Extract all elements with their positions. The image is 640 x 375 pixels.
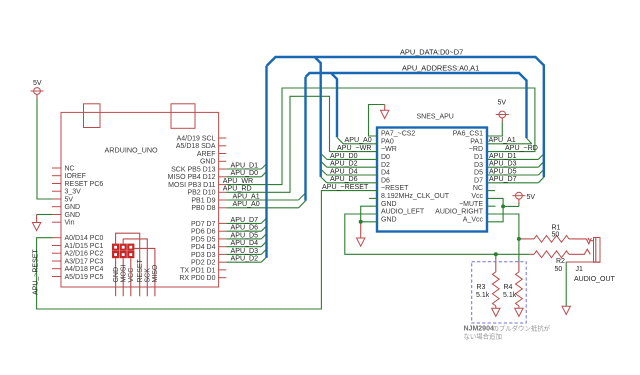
ARDUINO_UNO left pins (NC IOREF RESET 3_3V 5V GND GND Vin A0-A5) xyxy=(52,165,104,281)
svg-text:MOSI: MOSI xyxy=(121,265,128,283)
svg-text:~RESET: ~RESET xyxy=(381,185,409,192)
svg-text:Vcc: Vcc xyxy=(471,193,483,200)
svg-text:D4: D4 xyxy=(381,170,390,177)
wire APU_D3 from Arduino xyxy=(226,253,261,255)
bus entry APU_D4 Arduino side xyxy=(261,241,267,247)
ground at jack J1 xyxy=(562,262,570,315)
svg-text:RESET PC6: RESET PC6 xyxy=(65,181,104,188)
net label APU_RD at Arduino xyxy=(223,185,252,193)
resistor R2 50 xyxy=(529,251,581,258)
net label APU_D2 at Arduino xyxy=(231,255,259,263)
svg-text:A5/D18 SDA: A5/D18 SDA xyxy=(176,143,216,150)
net label APU_D0 at Arduino xyxy=(231,169,259,177)
net label APU_~RD at SNES right xyxy=(505,144,538,152)
SNES_APU left pin names xyxy=(381,131,450,224)
bus entry APU_A1 SNES right xyxy=(527,138,532,144)
svg-text:APU_A1: APU_A1 xyxy=(233,192,260,200)
svg-text:A0/D14 PC0: A0/D14 PC0 xyxy=(65,235,104,242)
wire APU_D0 to SNES xyxy=(327,158,377,160)
svg-text:~RD: ~RD xyxy=(469,146,483,153)
bus entry APU_A1 left xyxy=(299,193,306,200)
junction SNES GND xyxy=(359,220,363,224)
label AUDIO_OUT xyxy=(574,276,616,283)
ground at SNES GND pins xyxy=(357,222,365,246)
net label APU_A1 at SNES right xyxy=(489,136,516,144)
net label APU_A1 at Arduino xyxy=(233,192,260,200)
svg-text:GND: GND xyxy=(381,201,397,208)
svg-text:AUDIO_OUT: AUDIO_OUT xyxy=(574,276,616,283)
wire PA7_~CS2 to ground xyxy=(369,105,385,137)
IC U1 ARDUINO_UNO body xyxy=(61,112,219,287)
net label APU_D4 at Arduino xyxy=(231,239,259,247)
svg-text:AUDIO_RIGHT: AUDIO_RIGHT xyxy=(435,209,484,216)
svg-text:5V: 5V xyxy=(65,196,74,203)
wire APU_A1 to PA1 xyxy=(487,143,532,145)
svg-text:5.1k: 5.1k xyxy=(503,292,517,299)
svg-text:のプルダウン抵抗が: のプルダウン抵抗が xyxy=(493,324,551,333)
svg-text:MISO: MISO xyxy=(152,264,159,282)
bus label APU_ADDRESS:A0,A1 xyxy=(402,64,479,73)
wire APU_D0 from Arduino xyxy=(226,176,261,178)
wire APU_D1 to SNES right xyxy=(487,158,538,160)
power flag 5V top-left xyxy=(31,80,44,94)
bus entry APU_A0 left xyxy=(299,201,306,208)
svg-text:PA7_~CS2: PA7_~CS2 xyxy=(381,131,415,138)
svg-text:D3: D3 xyxy=(474,162,483,169)
net label APU_D4 at SNES left xyxy=(330,167,358,175)
svg-text:D5: D5 xyxy=(474,170,483,177)
bus entry APU_D3 Arduino side xyxy=(261,249,267,255)
net label APU_D6 at SNES left xyxy=(330,175,358,183)
bus label APU_DATA:D0~D7 xyxy=(400,48,463,57)
net label APU_D5 at SNES right xyxy=(489,167,517,175)
wire 5V right stub xyxy=(518,199,520,206)
svg-text:PA6_CS1: PA6_CS1 xyxy=(453,131,483,138)
svg-text:R2: R2 xyxy=(556,258,565,265)
svg-text:PD3 D3: PD3 D3 xyxy=(191,252,216,259)
bus entry APU_D6 SNES left xyxy=(321,177,327,183)
bus APU_ADDRESS:A0,A1 xyxy=(306,73,527,201)
svg-text:A4/D18 PC4: A4/D18 PC4 xyxy=(65,266,104,273)
svg-text:APU_D2: APU_D2 xyxy=(231,255,259,263)
svg-text:D2: D2 xyxy=(381,162,390,169)
bus entry APU_D0 Arduino side xyxy=(261,171,267,177)
wire APU_A0 to PA0 xyxy=(343,143,377,145)
svg-text:APU_ADDRESS:A0,A1: APU_ADDRESS:A0,A1 xyxy=(402,64,479,73)
net label APU_~RESET vertical xyxy=(33,249,40,295)
svg-text:~MUTE: ~MUTE xyxy=(459,201,483,208)
svg-text:APU_D0: APU_D0 xyxy=(330,152,358,160)
value 50 of R1 xyxy=(552,232,560,239)
svg-text:ARDUINO_UNO: ARDUINO_UNO xyxy=(105,146,159,155)
svg-text:APU_D4: APU_D4 xyxy=(330,167,358,175)
svg-text:GND: GND xyxy=(200,159,216,166)
power flag 5V above SNES right xyxy=(496,100,509,118)
wire APU_D3 to SNES right xyxy=(487,166,538,168)
label R2 xyxy=(556,258,565,265)
dashed note box around R3 R4 xyxy=(472,262,527,323)
svg-text:RESET: RESET xyxy=(137,258,144,282)
net label APU_D1 at Arduino xyxy=(231,161,259,169)
svg-text:5.1k: 5.1k xyxy=(476,292,490,299)
wire APU_D7 from Arduino xyxy=(226,222,261,224)
bus entry APU_A0 SNES xyxy=(337,138,343,144)
bus entry APU_D1 SNES right xyxy=(538,154,544,160)
svg-text:50: 50 xyxy=(552,232,560,239)
svg-text:5V: 5V xyxy=(498,100,507,107)
wire APU_D6 from Arduino xyxy=(226,230,261,232)
bus entry APU_D7 SNES right xyxy=(538,177,544,183)
svg-text:APU_D0: APU_D0 xyxy=(231,169,259,177)
svg-text:APU_~RESET: APU_~RESET xyxy=(33,249,40,295)
wire APU_D6 to SNES xyxy=(327,182,377,184)
bus entry APU_D0 SNES left xyxy=(321,153,327,159)
svg-text:GND: GND xyxy=(113,267,120,283)
junction AUDIO_LEFT to R3 xyxy=(494,252,498,256)
ICSP header pin lines xyxy=(116,233,155,296)
svg-text:5V: 5V xyxy=(33,80,42,87)
bus entry APU_D5 Arduino side xyxy=(261,233,267,239)
bus entry APU_D5 SNES right xyxy=(538,170,544,176)
svg-text:PB2 D10: PB2 D10 xyxy=(187,190,215,197)
ground below R4 xyxy=(515,308,523,316)
wire SNES GND pins xyxy=(361,206,377,222)
net label APU_D7 at SNES right xyxy=(489,175,517,183)
wire APU_WR (Arduino D11 to SNES ~RD) xyxy=(226,88,535,185)
svg-text:APU_A0: APU_A0 xyxy=(233,200,260,208)
svg-text:R1: R1 xyxy=(552,225,561,232)
label R4 xyxy=(504,284,513,291)
svg-text:SCK: SCK xyxy=(145,268,152,283)
svg-text:~WR: ~WR xyxy=(381,146,397,153)
svg-text:APU_D7: APU_D7 xyxy=(231,216,259,224)
svg-text:APU_D6: APU_D6 xyxy=(330,175,358,183)
power flag 5V right of SNES xyxy=(512,192,535,201)
bus entry APU_D1 Arduino side xyxy=(261,164,267,170)
svg-text:GND: GND xyxy=(65,204,81,211)
wire APU_~RESET (Arduino A0/D14 to SNES ~RESET) xyxy=(37,191,377,309)
bus entry APU_D2 Arduino side xyxy=(261,257,267,263)
svg-text:APU_D7: APU_D7 xyxy=(489,175,517,183)
wire Vcc to 5V xyxy=(487,198,519,206)
resistor R1 50 xyxy=(519,236,575,243)
svg-text:APU_~WR: APU_~WR xyxy=(337,144,372,152)
svg-text:VCC: VCC xyxy=(128,268,135,283)
svg-text:APU_D5: APU_D5 xyxy=(489,167,517,175)
junction Vcc 5V xyxy=(501,204,505,208)
svg-text:APU_DATA:D0~D7: APU_DATA:D0~D7 xyxy=(400,48,463,57)
wire APU_D5 to SNES right xyxy=(487,174,538,176)
net label APU_A0 at SNES left xyxy=(345,136,372,144)
label SNES_APU xyxy=(417,114,454,121)
svg-text:PD6 D6: PD6 D6 xyxy=(191,229,216,236)
net label APU_~RESET at SNES xyxy=(322,183,369,191)
svg-text:SNES_APU: SNES_APU xyxy=(417,114,454,121)
net label APU_D7 at Arduino xyxy=(231,216,259,224)
svg-text:D7: D7 xyxy=(474,177,483,184)
wire APU_RD (Arduino D10 to SNES ~WR) xyxy=(226,96,377,192)
audio jack J1 body xyxy=(566,238,600,263)
svg-text:NC: NC xyxy=(473,185,483,192)
ground below R3 xyxy=(492,308,500,316)
wire APU_D1 from Arduino xyxy=(226,168,261,170)
wire AUDIO_LEFT xyxy=(345,214,529,254)
wire 5V to PA6_CS1 xyxy=(487,118,502,136)
svg-text:APU_A1: APU_A1 xyxy=(489,136,516,144)
resistor R4 5.1k xyxy=(516,262,523,308)
SNES_APU unconnected stub NC xyxy=(487,190,495,192)
svg-text:Vin: Vin xyxy=(65,220,75,227)
wire APU_D5 from Arduino xyxy=(226,238,261,240)
ground at SNES PA7_~CS2 xyxy=(381,105,389,119)
ground at Arduino GND xyxy=(32,215,40,231)
net label APU_D1 at SNES right xyxy=(489,152,517,160)
svg-text:TX PD1 D1: TX PD1 D1 xyxy=(180,267,216,274)
svg-text:GND: GND xyxy=(65,212,81,219)
wire AUDIO_RIGHT xyxy=(487,214,519,262)
wire APU_D7 to SNES right xyxy=(487,182,538,184)
svg-text:A5/D19 PC5: A5/D19 PC5 xyxy=(65,274,104,281)
svg-text:MOSI PB3 D11: MOSI PB3 D11 xyxy=(168,182,215,189)
svg-text:GND: GND xyxy=(381,216,397,223)
svg-text:APU_D3: APU_D3 xyxy=(231,247,259,255)
net label APU_D6 at Arduino xyxy=(231,224,259,232)
svg-text:MISO PB4 D12: MISO PB4 D12 xyxy=(168,174,216,181)
value 5.1k of R4 xyxy=(503,292,517,299)
svg-text:D1: D1 xyxy=(474,154,483,161)
svg-text:3_3V: 3_3V xyxy=(65,189,82,196)
value 5.1k of R3 xyxy=(476,292,490,299)
svg-text:APU_D5: APU_D5 xyxy=(231,231,259,239)
svg-text:IOREF: IOREF xyxy=(65,173,86,180)
ICSP pin labels GND MOSI VCC RESET SCK MISO xyxy=(113,258,159,282)
svg-text:NC: NC xyxy=(65,165,75,172)
svg-text:APU_~RD: APU_~RD xyxy=(505,144,538,152)
svg-text:A3/D17 PC3: A3/D17 PC3 xyxy=(65,258,104,265)
svg-text:AUDIO_LEFT: AUDIO_LEFT xyxy=(381,209,425,216)
bus APU_DATA:D0~D7 xyxy=(267,57,544,258)
resistor R3 5.1k xyxy=(492,254,499,308)
svg-text:NJM2904: NJM2904 xyxy=(464,326,494,333)
svg-text:APU_D2: APU_D2 xyxy=(330,160,358,168)
bus entry APU_D7 Arduino side xyxy=(261,218,267,224)
svg-text:PD7 D7: PD7 D7 xyxy=(191,221,216,228)
ICSP header 2x3 pads xyxy=(112,244,134,259)
label ARDUINO_UNO xyxy=(105,146,159,155)
svg-text:D6: D6 xyxy=(381,177,390,184)
bus entry APU_D6 Arduino side xyxy=(261,226,267,232)
svg-text:RX PD0 D0: RX PD0 D0 xyxy=(179,275,215,282)
net label APU_A0 at Arduino xyxy=(233,200,260,208)
svg-text:APU_D1: APU_D1 xyxy=(489,152,517,160)
svg-text:APU_~RESET: APU_~RESET xyxy=(322,183,369,191)
SNES_APU unconnected stub CLK_OUT xyxy=(369,197,377,199)
svg-text:D0: D0 xyxy=(381,154,390,161)
bus entry APU_D2 SNES left xyxy=(321,161,327,167)
USB connector box on ARDUINO_UNO xyxy=(84,104,101,128)
wire APU_D2 to SNES xyxy=(327,166,377,168)
wire APU_D4 from Arduino xyxy=(226,246,261,248)
svg-text:R4: R4 xyxy=(504,284,513,291)
SNES_APU right pin names xyxy=(435,131,484,224)
net label APU_D3 at SNES right xyxy=(489,160,517,168)
svg-text:SCK PB5 D13: SCK PB5 D13 xyxy=(171,166,215,173)
svg-text:50: 50 xyxy=(555,266,563,273)
wire APU_D2 from Arduino xyxy=(226,261,261,263)
wire Arduino GND pin xyxy=(37,214,53,216)
svg-text:PA0: PA0 xyxy=(381,138,394,145)
net label APU_~WR at SNES left xyxy=(337,144,372,152)
junction AUDIO_RIGHT to R1 xyxy=(517,237,521,241)
net label APU_D3 at Arduino xyxy=(231,247,259,255)
svg-text:A_Vcc: A_Vcc xyxy=(463,216,484,223)
svg-text:AREF: AREF xyxy=(197,151,216,158)
svg-text:PA1: PA1 xyxy=(470,138,483,145)
svg-text:A2/D16 PC2: A2/D16 PC2 xyxy=(65,251,104,258)
svg-text:APU_D3: APU_D3 xyxy=(489,160,517,168)
svg-text:8.192MHz_CLK_OUT: 8.192MHz_CLK_OUT xyxy=(381,193,450,200)
svg-text:PD4 D4: PD4 D4 xyxy=(191,244,216,251)
value 50 of R2 xyxy=(555,266,563,273)
wire APU_A0 from Arduino D8 xyxy=(226,207,298,209)
svg-text:J1: J1 xyxy=(576,266,584,273)
svg-text:PD2 D2: PD2 D2 xyxy=(191,260,216,267)
net label APU_D0 at SNES left xyxy=(330,152,358,160)
bus entry APU_D3 SNES right xyxy=(538,162,544,168)
label R1 xyxy=(552,225,561,232)
svg-text:PB1 D9: PB1 D9 xyxy=(191,197,215,204)
wire A_Vcc to 5V xyxy=(487,206,503,221)
svg-text:ない場合追加: ない場合追加 xyxy=(464,332,502,341)
label R3 xyxy=(477,284,486,291)
note text NJM2904 line2 xyxy=(464,332,502,341)
svg-text:R3: R3 xyxy=(477,284,486,291)
wire 5V to Arduino 5V pin xyxy=(37,94,53,199)
SNES_APU unconnected stub ~MUTE xyxy=(487,205,496,207)
svg-text:PD5 D5: PD5 D5 xyxy=(191,236,216,243)
wire APU_D4 to SNES xyxy=(327,174,377,176)
ARDUINO_UNO right pins (SCL SDA AREF GND D13-D0) xyxy=(168,135,227,282)
svg-text:PB0 D8: PB0 D8 xyxy=(191,205,215,212)
svg-text:APU_D1: APU_D1 xyxy=(231,161,259,169)
svg-text:5V: 5V xyxy=(527,194,536,201)
power jack box on ARDUINO_UNO xyxy=(171,104,195,129)
label J1 xyxy=(576,266,584,273)
wire APU_A1 from Arduino D9 xyxy=(226,199,298,201)
svg-text:A1/D15 PC1: A1/D15 PC1 xyxy=(65,243,104,250)
note text NJM2904 line1 xyxy=(464,324,551,333)
svg-text:APU_A0: APU_A0 xyxy=(345,136,372,144)
bus entry APU_D4 SNES left xyxy=(321,169,327,175)
svg-text:A4/D19 SCL: A4/D19 SCL xyxy=(177,135,216,142)
net label APU_WR at Arduino xyxy=(223,177,253,185)
net label APU_D2 at SNES left xyxy=(330,160,358,168)
net label APU_D5 at Arduino xyxy=(231,231,259,239)
IC U2 SNES_APU body xyxy=(377,128,487,232)
